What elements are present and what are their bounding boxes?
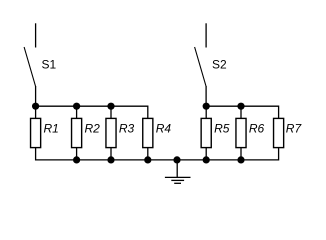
- junction node B (S2/R5/top rail): [203, 103, 210, 110]
- wire R5 top: [205, 106, 207, 118]
- resistor R6: [236, 118, 246, 147]
- switch S1: [24, 23, 35, 86]
- junction R2 top: [73, 103, 80, 110]
- svg-text:S2: S2: [212, 58, 227, 72]
- resistor R7: [274, 118, 284, 147]
- svg-text:R4: R4: [156, 122, 172, 136]
- svg-text:R3: R3: [119, 122, 135, 136]
- junction R4 bottom: [144, 156, 151, 163]
- resistor R1: [31, 118, 41, 147]
- wire S2 to top rail: [205, 86, 207, 106]
- resistor R5: [201, 118, 211, 147]
- wire R6 top: [240, 106, 242, 118]
- wire R5 bottom: [205, 148, 207, 160]
- junction node A (S1/R1/top rail): [32, 103, 39, 110]
- svg-text:R1: R1: [44, 122, 59, 136]
- junction R5 bottom: [203, 156, 210, 163]
- resistor R4: [143, 118, 153, 147]
- wire R4 bottom: [147, 148, 149, 160]
- junction R6 bottom: [237, 156, 244, 163]
- svg-text:R5: R5: [214, 122, 230, 136]
- wire top rail left group: [36, 106, 148, 118]
- wire R2 bottom: [76, 148, 78, 160]
- junction R2 bottom: [73, 156, 80, 163]
- wire R1 top: [35, 106, 37, 118]
- resistor R3: [106, 118, 116, 147]
- ground: [165, 160, 191, 183]
- wire R6 bottom: [240, 148, 242, 160]
- wire top rail right group: [206, 106, 278, 118]
- junction ground node: [173, 156, 180, 163]
- junction R3 top: [107, 103, 114, 110]
- switch S2: [195, 23, 207, 86]
- svg-text:R7: R7: [286, 122, 303, 136]
- wire S1 to top rail: [35, 86, 37, 106]
- svg-text:S1: S1: [42, 58, 57, 72]
- svg-text:R2: R2: [85, 122, 101, 136]
- wire R2 top: [76, 106, 78, 118]
- junction R6 top: [237, 103, 244, 110]
- svg-text:R6: R6: [249, 122, 265, 136]
- wire R3 top: [110, 106, 112, 118]
- junction R3 bottom: [107, 156, 114, 163]
- wire bottom rail: [36, 148, 279, 160]
- resistor R2: [72, 118, 82, 147]
- wire R3 bottom: [110, 148, 112, 160]
